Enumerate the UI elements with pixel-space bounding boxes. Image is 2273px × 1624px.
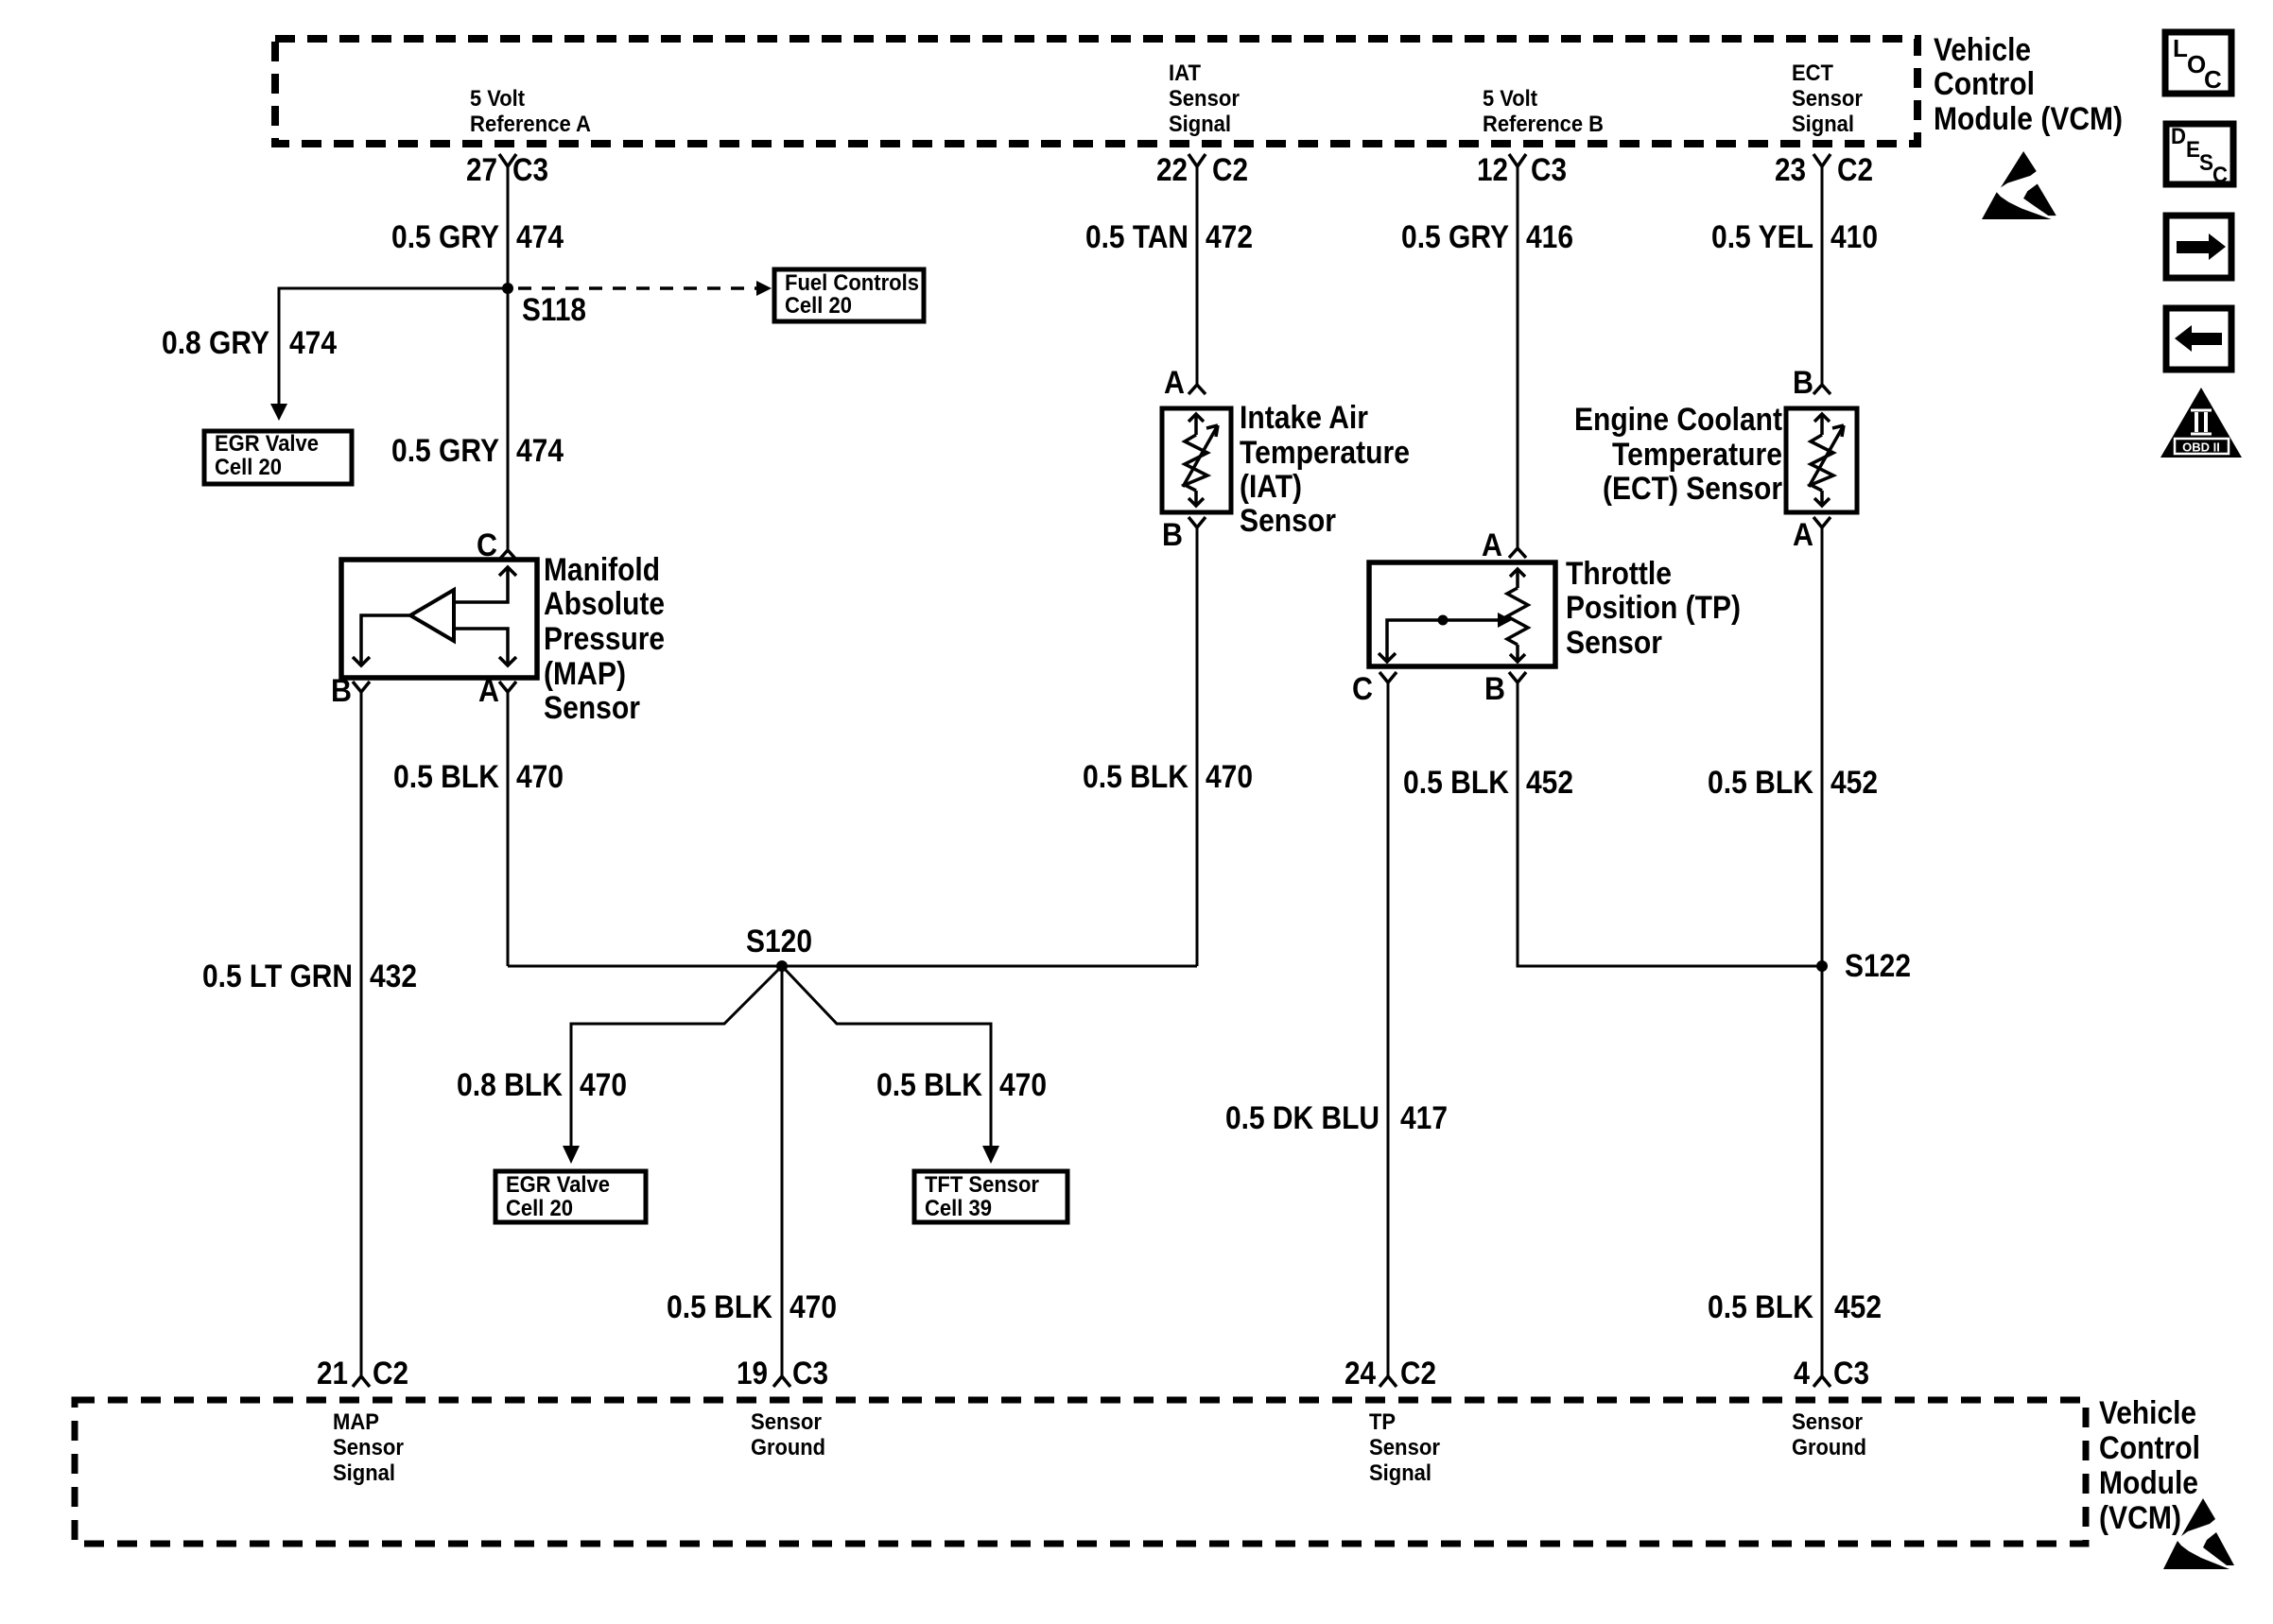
legend DESC box — [2166, 124, 2233, 184]
ground bus wire — [508, 965, 1197, 968]
splice S120 — [776, 960, 788, 972]
svg-text:470: 470 — [580, 1067, 627, 1103]
svg-text:Fuel Controls: Fuel Controls — [785, 270, 919, 296]
svg-text:C: C — [2212, 163, 2228, 188]
svg-text:D: D — [2171, 124, 2186, 149]
arrowhead to TFT sensor — [982, 1146, 999, 1164]
wire branch S120 to TFT sensor — [782, 966, 991, 1146]
svg-text:TP: TP — [1369, 1409, 1396, 1435]
legend right-arrow box — [2166, 216, 2231, 278]
wire 5V reference A vertical — [507, 166, 510, 550]
svg-text:Signal: Signal — [1369, 1460, 1431, 1486]
svg-text:Sensor: Sensor — [544, 690, 640, 726]
svg-text:S118: S118 — [522, 292, 586, 328]
MAP internal wire to pin B with down arrow — [361, 615, 410, 664]
TFT Sensor Cell 39 box — [914, 1171, 1067, 1222]
svg-text:Pressure: Pressure — [544, 621, 665, 657]
svg-text:Manifold: Manifold — [544, 552, 660, 588]
svg-text:0.5 BLK: 0.5 BLK — [1083, 759, 1189, 795]
svg-text:0.5 BLK: 0.5 BLK — [1708, 1289, 1813, 1325]
svg-text:4: 4 — [1794, 1356, 1810, 1391]
svg-text:ECT: ECT — [1792, 60, 1833, 86]
svg-text:470: 470 — [789, 1289, 837, 1325]
svg-text:0.5 GRY: 0.5 GRY — [391, 433, 499, 469]
wire branch to EGR valve — [279, 288, 508, 404]
svg-text:B: B — [1793, 365, 1813, 401]
TP sensor pin B — [1509, 672, 1526, 682]
svg-text:24: 24 — [1345, 1356, 1376, 1391]
svg-text:Temperature: Temperature — [1240, 435, 1410, 471]
TP sensor box — [1369, 562, 1555, 666]
svg-text:27: 27 — [466, 152, 497, 188]
svg-text:Position (TP): Position (TP) — [1566, 590, 1741, 626]
svg-text:(IAT): (IAT) — [1240, 469, 1302, 505]
svg-text:B: B — [1162, 517, 1183, 553]
TP potentiometer resistor — [1507, 569, 1528, 662]
svg-text:Ground: Ground — [751, 1435, 825, 1460]
VCM module bottom dashed box — [75, 1400, 2086, 1544]
arrowhead to EGR valve bottom — [563, 1146, 580, 1164]
svg-text:Sensor: Sensor — [751, 1409, 822, 1435]
svg-text:0.8 BLK: 0.8 BLK — [457, 1067, 563, 1103]
svg-text:(VCM): (VCM) — [2099, 1500, 2181, 1536]
svg-text:410: 410 — [1831, 219, 1878, 255]
MAP sensor box — [341, 560, 537, 678]
svg-text:C2: C2 — [1837, 152, 1873, 188]
svg-text:C3: C3 — [512, 152, 548, 188]
svg-text:21: 21 — [317, 1356, 348, 1391]
MAP sensor pin C — [499, 550, 516, 560]
svg-text:Signal: Signal — [333, 1460, 395, 1486]
svg-text:0.5 GRY: 0.5 GRY — [1401, 219, 1509, 255]
svg-text:Cell 20: Cell 20 — [785, 293, 852, 319]
ECT sensor pin A — [1813, 517, 1831, 527]
pin 12 C3 connector — [1509, 154, 1526, 166]
svg-text:0.5 YEL: 0.5 YEL — [1711, 219, 1813, 255]
svg-text:S122: S122 — [1845, 948, 1911, 984]
pin 23 C2 connector — [1813, 154, 1831, 166]
svg-text:0.5 BLK: 0.5 BLK — [393, 759, 499, 795]
svg-text:416: 416 — [1526, 219, 1573, 255]
wire TP C signal down to pin 24 — [1387, 682, 1390, 1376]
MAP internal wire to pin C with up arrow — [454, 569, 508, 602]
ECT sensor pin B — [1813, 385, 1831, 394]
svg-text:0.8 GRY: 0.8 GRY — [162, 325, 269, 361]
svg-text:470: 470 — [1206, 759, 1253, 795]
wire 5V reference B vertical — [1517, 166, 1519, 548]
wire ECT signal vertical — [1821, 166, 1824, 385]
svg-text:452: 452 — [1834, 1289, 1882, 1325]
svg-text:Engine Coolant: Engine Coolant — [1574, 402, 1782, 438]
svg-text:Module (VCM): Module (VCM) — [1934, 101, 2123, 137]
MAP internal wire to pin A with down arrow — [454, 629, 508, 664]
IAT sensor pin B — [1189, 517, 1206, 527]
svg-text:MAP: MAP — [333, 1409, 379, 1435]
TP sensor pin C — [1379, 672, 1397, 682]
svg-text:EGR Valve: EGR Valve — [215, 431, 319, 457]
svg-text:0.5 BLK: 0.5 BLK — [667, 1289, 772, 1325]
svg-text:470: 470 — [999, 1067, 1047, 1103]
pin 22 C2 connector — [1189, 154, 1206, 166]
svg-text:Control: Control — [1934, 66, 2035, 102]
arrowhead to EGR valve — [270, 404, 287, 421]
svg-text:Module: Module — [2099, 1465, 2198, 1501]
svg-text:Intake Air: Intake Air — [1240, 400, 1368, 436]
ECT sensor box — [1786, 408, 1857, 512]
svg-text:Vehicle: Vehicle — [1934, 32, 2031, 68]
MAP sensor pin A — [499, 682, 516, 692]
wire IAT B ground down to bus — [1196, 527, 1199, 966]
svg-text:0.5 DK BLU: 0.5 DK BLU — [1225, 1100, 1379, 1136]
svg-text:452: 452 — [1831, 765, 1878, 801]
IAT sensor pin A — [1189, 385, 1206, 394]
svg-text:5 Volt: 5 Volt — [1483, 86, 1537, 112]
MAP sensor pin B — [353, 682, 370, 692]
svg-text:452: 452 — [1526, 765, 1573, 801]
svg-text:C: C — [2204, 65, 2222, 94]
svg-text:Sensor: Sensor — [1240, 503, 1336, 539]
svg-text:Cell 20: Cell 20 — [506, 1196, 573, 1221]
wire branch S120 to EGR valve — [571, 966, 782, 1146]
svg-text:B: B — [1484, 671, 1505, 707]
svg-text:Sensor: Sensor — [1566, 625, 1662, 661]
svg-text:B: B — [331, 673, 352, 709]
svg-text:Cell 20: Cell 20 — [215, 455, 282, 480]
legend LOC box — [2165, 32, 2231, 94]
svg-text:Sensor: Sensor — [1792, 86, 1863, 112]
wire IAT signal vertical — [1196, 166, 1199, 385]
svg-text:Sensor: Sensor — [1169, 86, 1240, 112]
pin 19 C3 connector — [773, 1376, 790, 1387]
svg-text:474: 474 — [289, 325, 337, 361]
svg-text:Absolute: Absolute — [544, 586, 665, 622]
pin 24 C2 connector — [1379, 1376, 1397, 1387]
splice S118 — [502, 283, 513, 294]
svg-text:432: 432 — [370, 959, 417, 994]
svg-text:Reference A: Reference A — [470, 112, 591, 137]
svg-text:TFT Sensor: TFT Sensor — [925, 1172, 1039, 1198]
splice S122 — [1816, 960, 1828, 972]
svg-text:474: 474 — [516, 219, 564, 255]
wire MAP A ground down to bus — [507, 692, 510, 966]
svg-text:0.5 LT GRN: 0.5 LT GRN — [202, 959, 353, 994]
svg-text:0.5 BLK: 0.5 BLK — [1708, 765, 1813, 801]
ESD symbol bottom right — [2163, 1498, 2234, 1569]
svg-text:Sensor: Sensor — [1792, 1409, 1863, 1435]
wire MAP B signal (LT GRN 432) — [360, 692, 363, 1376]
svg-text:Sensor: Sensor — [1369, 1435, 1440, 1460]
svg-text:C2: C2 — [373, 1356, 408, 1391]
svg-text:EGR Valve: EGR Valve — [506, 1172, 610, 1198]
svg-text:Sensor: Sensor — [333, 1435, 404, 1460]
ECT thermistor symbol — [1809, 414, 1844, 506]
svg-text:22: 22 — [1156, 152, 1188, 188]
svg-text:417: 417 — [1400, 1100, 1448, 1136]
svg-text:Signal: Signal — [1792, 112, 1854, 137]
svg-text:OBD II: OBD II — [2182, 441, 2220, 455]
svg-text:Vehicle: Vehicle — [2099, 1395, 2196, 1431]
svg-text:470: 470 — [516, 759, 564, 795]
svg-text:(ECT) Sensor: (ECT) Sensor — [1603, 471, 1782, 507]
IAT thermistor symbol — [1183, 414, 1218, 506]
svg-text:Throttle: Throttle — [1566, 556, 1672, 592]
svg-text:C3: C3 — [1531, 152, 1567, 188]
Fuel Controls Cell 20 box — [774, 269, 924, 321]
svg-text:S: S — [2199, 150, 2213, 176]
svg-text:(MAP): (MAP) — [544, 656, 626, 692]
legend left-arrow box — [2166, 308, 2231, 370]
svg-text:Reference B: Reference B — [1483, 112, 1604, 137]
wire ECT A ground down through S122 — [1821, 527, 1824, 1376]
legend OBD II triangle — [2160, 388, 2242, 458]
svg-text:E: E — [2186, 137, 2200, 163]
IAT sensor box — [1162, 408, 1231, 512]
svg-text:A: A — [1482, 527, 1502, 563]
svg-text:Control: Control — [2099, 1430, 2200, 1466]
svg-text:L: L — [2173, 34, 2188, 62]
svg-text:5 Volt: 5 Volt — [470, 86, 525, 112]
svg-text:S120: S120 — [746, 924, 812, 959]
svg-text:12: 12 — [1477, 152, 1508, 188]
svg-text:A: A — [478, 673, 499, 709]
svg-text:0.5 TAN: 0.5 TAN — [1085, 219, 1189, 255]
wire S120 down to pin 19 — [781, 966, 784, 1376]
TP sensor pin A — [1509, 548, 1526, 558]
svg-text:0.5 BLK: 0.5 BLK — [876, 1067, 982, 1103]
svg-text:0.5 GRY: 0.5 GRY — [391, 219, 499, 255]
svg-text:A: A — [1164, 365, 1185, 401]
EGR Valve Cell 20 box bottom — [495, 1171, 646, 1222]
ESD symbol top right — [1982, 151, 2056, 219]
svg-text:474: 474 — [516, 433, 564, 469]
svg-text:IAT: IAT — [1169, 60, 1201, 86]
pin 4 C3 connector — [1813, 1376, 1831, 1387]
svg-text:Cell 39: Cell 39 — [925, 1196, 992, 1221]
svg-text:472: 472 — [1206, 219, 1253, 255]
dashed arrow to Fuel Controls — [518, 286, 756, 290]
svg-text:23: 23 — [1775, 152, 1806, 188]
svg-text:C2: C2 — [1212, 152, 1248, 188]
EGR Valve Cell 20 box top-left — [204, 431, 352, 484]
svg-text:0.5 BLK: 0.5 BLK — [1403, 765, 1509, 801]
TP wiper arm with junction dot — [1387, 620, 1498, 662]
VCM module top dashed box — [275, 39, 1917, 144]
svg-text:C: C — [1352, 671, 1373, 707]
svg-text:Ground: Ground — [1792, 1435, 1866, 1460]
svg-text:Signal: Signal — [1169, 112, 1231, 137]
pin 27 C3 connector — [499, 154, 516, 166]
svg-text:Temperature: Temperature — [1612, 437, 1782, 473]
pin 21 C2 connector — [353, 1376, 370, 1387]
svg-text:A: A — [1793, 517, 1813, 553]
svg-text:19: 19 — [737, 1356, 768, 1391]
wire TP B ground to S122 — [1518, 682, 1822, 966]
svg-text:C3: C3 — [1833, 1356, 1869, 1391]
MAP sensor amplifier triangle — [410, 590, 454, 641]
svg-text:C2: C2 — [1400, 1356, 1436, 1391]
svg-text:C3: C3 — [792, 1356, 828, 1391]
